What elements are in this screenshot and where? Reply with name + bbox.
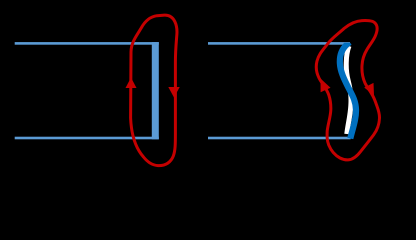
bulged surface blue edge (S-curve)	[340, 42, 356, 138]
left tube bottom line	[15, 137, 159, 140]
right tube top line	[208, 42, 350, 45]
arrow down-right (right side of right loop)	[364, 83, 374, 96]
Amperian loop (right, deformed red loop)	[316, 21, 379, 160]
flat end surface (blue bar)	[152, 42, 159, 139]
right tube bottom line	[208, 137, 351, 140]
left tube top line	[15, 42, 159, 45]
arrow up (left side of left loop)	[126, 78, 137, 89]
arrow down (right side of left loop)	[168, 87, 179, 98]
Amperian loop (left, red oval)	[131, 15, 177, 166]
arrow up-left (left side of right loop)	[321, 79, 331, 93]
bulged surface white face	[346, 46, 351, 134]
